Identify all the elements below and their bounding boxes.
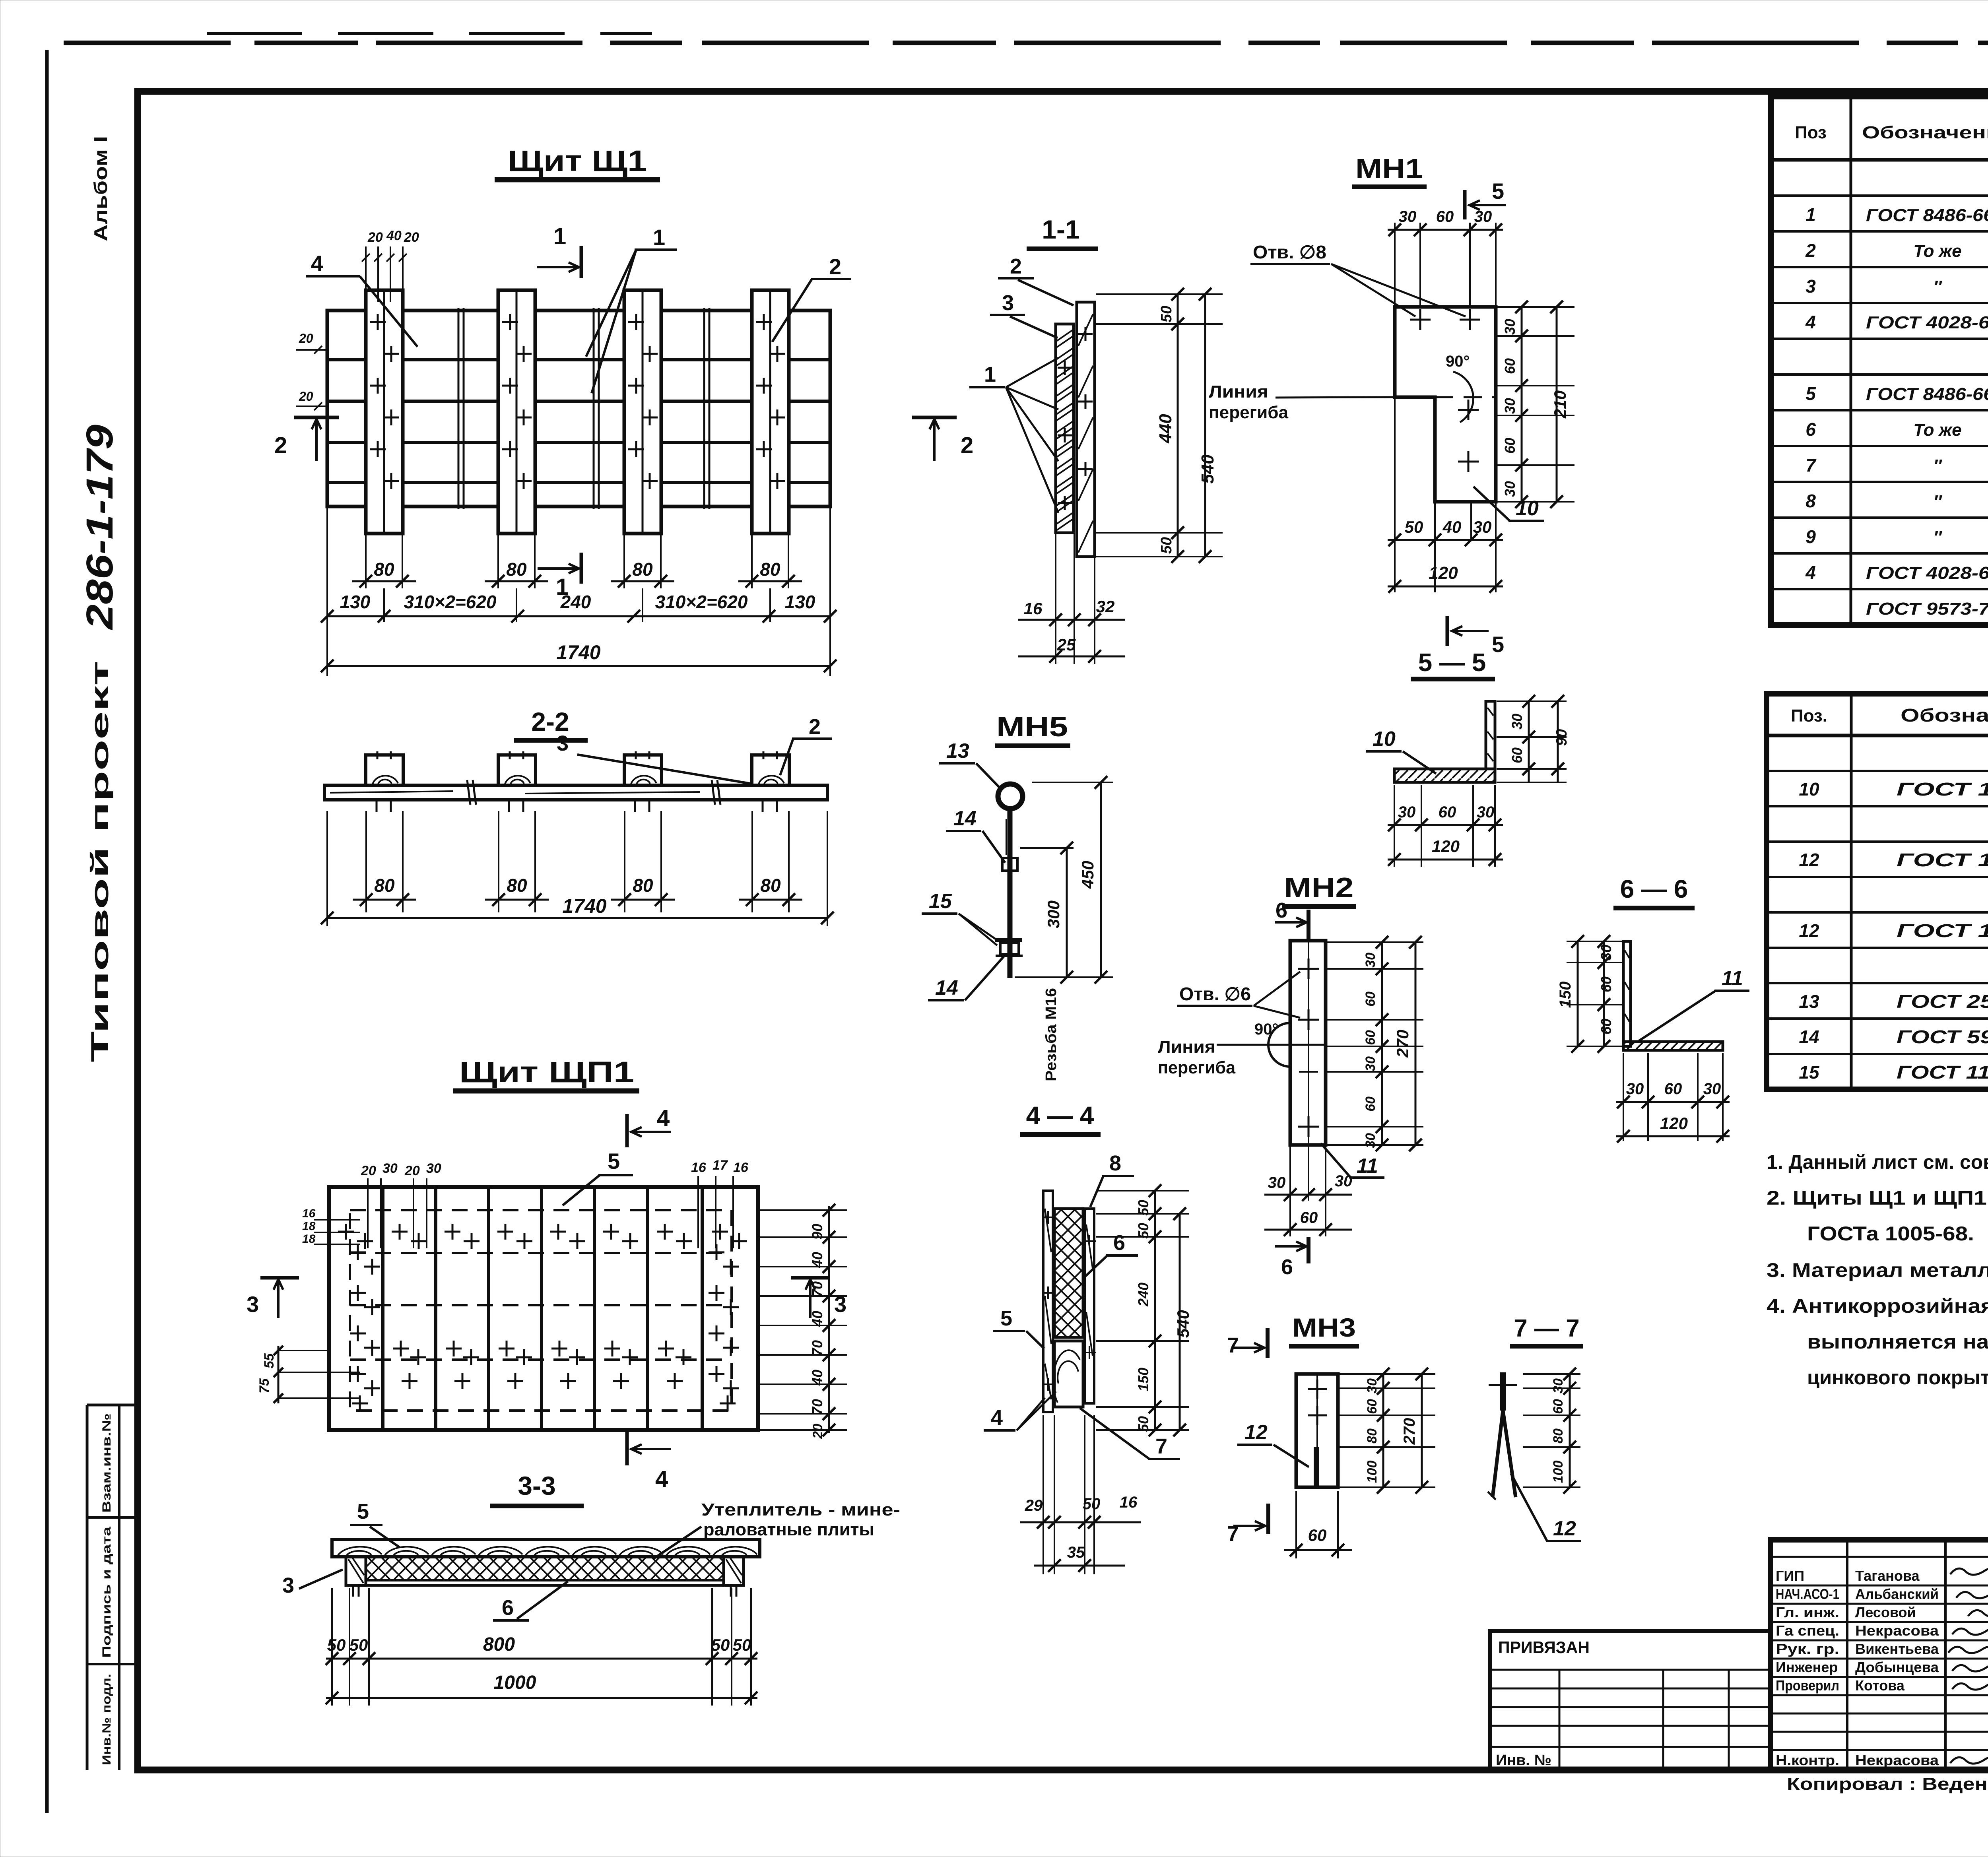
svg-text:12: 12 bbox=[1799, 850, 1819, 870]
svg-text:Альбанский: Альбанский bbox=[1855, 1586, 1939, 1602]
title block signature grid bbox=[1771, 1556, 1988, 1558]
svg-text:100: 100 bbox=[1365, 1461, 1380, 1483]
svg-text:60: 60 bbox=[1365, 1399, 1380, 1414]
sheet outer border left edge bbox=[45, 50, 49, 1813]
svg-text:300: 300 bbox=[1044, 900, 1063, 928]
svg-text:50: 50 bbox=[1158, 306, 1175, 322]
svg-text:16: 16 bbox=[302, 1207, 316, 1220]
svg-text:30: 30 bbox=[1363, 1133, 1378, 1148]
svg-text:4. Антикоррозийная защита с: 4. Антикоррозийная защита соединительных… bbox=[1767, 1295, 1988, 1317]
svg-text:1: 1 bbox=[1806, 204, 1816, 225]
right dims 1-1 bbox=[1096, 293, 1223, 295]
svg-text:12: 12 bbox=[1244, 1421, 1268, 1444]
svg-text:1740: 1740 bbox=[562, 895, 606, 917]
right dims МН1 inner chain bbox=[1497, 306, 1574, 308]
section 5-5 horizontal plate bbox=[1394, 769, 1495, 782]
svg-text:17: 17 bbox=[712, 1158, 728, 1173]
svg-text:1: 1 bbox=[653, 225, 665, 250]
svg-text:Отв. ∅8: Отв. ∅8 bbox=[1253, 242, 1326, 262]
section 2-2 board bbox=[324, 785, 827, 800]
svg-text:16: 16 bbox=[1024, 599, 1043, 618]
svg-text:Поз.: Поз. bbox=[1791, 706, 1827, 726]
svg-text:120: 120 bbox=[1660, 1114, 1688, 1133]
svg-text:30: 30 bbox=[1399, 208, 1417, 225]
svg-text:120: 120 bbox=[1432, 837, 1460, 856]
svg-text:40: 40 bbox=[386, 228, 402, 243]
svg-text:60: 60 bbox=[1363, 1030, 1378, 1045]
section 3-3 insulation hatched bbox=[366, 1557, 724, 1580]
svg-text:3: 3 bbox=[1806, 276, 1816, 297]
svg-text:4: 4 bbox=[311, 251, 323, 276]
svg-text:18: 18 bbox=[302, 1232, 316, 1246]
svg-text:2. Щиты Щ1 и ЩП1 выполнят: 2. Щиты Щ1 и ЩП1 выполнять согласно техн… bbox=[1767, 1187, 1988, 1209]
section 7-7 fork legs bbox=[1493, 1411, 1503, 1497]
svg-text:″: ″ bbox=[1933, 492, 1942, 511]
plate МН3 centerline bbox=[1316, 1374, 1318, 1447]
slot МН3 bbox=[1314, 1447, 1319, 1486]
svg-text:540: 540 bbox=[1174, 1310, 1192, 1338]
svg-text:80: 80 bbox=[506, 559, 527, 580]
panel ЩП1 outline bbox=[329, 1187, 758, 1430]
svg-text:4: 4 bbox=[1805, 562, 1816, 583]
svg-text:Отв. ∅6: Отв. ∅6 bbox=[1179, 984, 1251, 1004]
svg-text:80: 80 bbox=[760, 875, 781, 896]
section mark 1 bottom bbox=[580, 553, 583, 584]
svg-text:ГИП: ГИП bbox=[1776, 1568, 1804, 1584]
svg-text:2: 2 bbox=[1805, 240, 1816, 261]
svg-text:16: 16 bbox=[691, 1160, 707, 1175]
svg-text:Лесовой: Лесовой bbox=[1855, 1604, 1916, 1620]
svg-text:″: ″ bbox=[1933, 528, 1942, 547]
svg-text:2: 2 bbox=[809, 715, 821, 739]
svg-text:МН1: МН1 bbox=[1355, 153, 1423, 184]
svg-text:30: 30 bbox=[1626, 1080, 1644, 1098]
svg-text:2: 2 bbox=[961, 433, 973, 458]
svg-text:13: 13 bbox=[1799, 991, 1819, 1012]
section 5-5 vertical leg bbox=[1486, 701, 1495, 769]
svg-text:60: 60 bbox=[1664, 1080, 1682, 1098]
svg-text:6: 6 bbox=[1806, 419, 1816, 440]
svg-text:11: 11 bbox=[1357, 1155, 1378, 1178]
svg-text:16: 16 bbox=[1120, 1494, 1138, 1511]
section 4-4 lower wood block bbox=[1054, 1341, 1083, 1407]
svg-text:ГОСТ 4028-63*: ГОСТ 4028-63* bbox=[1866, 313, 1988, 332]
svg-text:12: 12 bbox=[1799, 920, 1819, 941]
section mark 4 top bbox=[625, 1114, 629, 1147]
privyazan block columns bbox=[1559, 1670, 1561, 1770]
section 3-3 bottom board line bbox=[346, 1584, 744, 1587]
svg-text:60: 60 bbox=[1598, 976, 1614, 992]
svg-text:2: 2 bbox=[1010, 254, 1022, 278]
svg-text:Типовой проект: Типовой проект bbox=[86, 661, 114, 1062]
svg-text:90°: 90° bbox=[1446, 353, 1470, 370]
svg-text:30: 30 bbox=[426, 1161, 441, 1176]
svg-text:30: 30 bbox=[1474, 208, 1492, 225]
panel Щ1 board joint lines bbox=[458, 308, 460, 509]
svg-text:1: 1 bbox=[984, 363, 996, 386]
right dim chain ЩП1 bbox=[758, 1209, 847, 1211]
panel ЩП1 dashed inset frame bbox=[350, 1210, 732, 1411]
svg-text:Обозначение: Обозначение bbox=[1862, 123, 1988, 142]
left margin stamp boxes bbox=[86, 1405, 89, 1770]
svg-text:25: 25 bbox=[1057, 635, 1076, 654]
svg-text:20: 20 bbox=[299, 389, 313, 404]
МН5 ring bbox=[998, 784, 1023, 809]
svg-text:310×2=620: 310×2=620 bbox=[404, 592, 497, 612]
svg-text:8: 8 bbox=[1109, 1151, 1121, 1175]
svg-text:50: 50 bbox=[1135, 1223, 1151, 1239]
svg-text:10: 10 bbox=[1799, 779, 1819, 799]
panel ЩП1 board lines bbox=[381, 1187, 384, 1430]
svg-text:Линия: Линия bbox=[1158, 1037, 1215, 1057]
svg-text:55: 55 bbox=[262, 1353, 277, 1368]
svg-text:20: 20 bbox=[810, 1424, 825, 1439]
section 1-1 nails bbox=[1078, 333, 1093, 335]
svg-text:ГОСТа 1005-68.: ГОСТа 1005-68. bbox=[1807, 1222, 1974, 1245]
svg-text:Рук. гр.: Рук. гр. bbox=[1776, 1641, 1839, 1657]
panel Щ1 board lines bbox=[327, 358, 830, 361]
svg-text:30: 30 bbox=[1509, 714, 1525, 730]
svg-text:90: 90 bbox=[1553, 729, 1570, 746]
dims 50 50 800 50 50 under 3-3 bbox=[331, 1588, 333, 1706]
svg-text:6: 6 bbox=[502, 1596, 514, 1620]
svg-text:12: 12 bbox=[1553, 1517, 1576, 1540]
svg-text:60: 60 bbox=[1502, 358, 1518, 374]
svg-text:60: 60 bbox=[1598, 1019, 1614, 1034]
section mark 6 bottom МН2 bbox=[1307, 1237, 1310, 1263]
title block signature squiggles bbox=[1950, 1568, 1988, 1575]
svg-text:4: 4 bbox=[657, 1105, 670, 1131]
svg-text:240: 240 bbox=[560, 592, 591, 612]
angle 6-6 horizontal leg bbox=[1623, 1042, 1723, 1050]
svg-text:20: 20 bbox=[404, 230, 419, 245]
90 degree arc МН1 bbox=[1453, 372, 1474, 422]
svg-text:7: 7 bbox=[1155, 1434, 1167, 1458]
svg-text:10: 10 bbox=[1516, 497, 1539, 520]
right dims 4-4 outer 540 bbox=[1179, 1214, 1181, 1430]
svg-text:9: 9 bbox=[1806, 526, 1816, 547]
svg-text:120: 120 bbox=[1429, 563, 1458, 583]
svg-text:10: 10 bbox=[1373, 728, 1396, 751]
bottom dims 50 40 30 МН1 bbox=[1394, 397, 1396, 592]
svg-text:перегиба: перегиба bbox=[1209, 403, 1289, 422]
90 degree arc МН2 bbox=[1268, 1023, 1290, 1067]
bottom dims 29 50 16 / 35 4-4 bbox=[1043, 1415, 1044, 1574]
svg-text:30: 30 bbox=[1473, 518, 1492, 536]
bottom dim 60 МН3 bbox=[1295, 1491, 1297, 1558]
svg-text:ГОСТ 8486-66**: ГОСТ 8486-66** bbox=[1866, 384, 1988, 404]
svg-text:80: 80 bbox=[633, 875, 653, 896]
svg-text:40: 40 bbox=[1442, 518, 1462, 536]
svg-text:30: 30 bbox=[1365, 1378, 1380, 1393]
top dims 30 60 30 МН1 bbox=[1394, 223, 1396, 306]
plate МН3 bbox=[1296, 1374, 1338, 1487]
svg-text:20: 20 bbox=[367, 230, 383, 245]
svg-text:50: 50 bbox=[1135, 1416, 1151, 1432]
svg-text:Утеплитель - мине-: Утеплитель - мине- bbox=[701, 1500, 900, 1519]
svg-text:6: 6 bbox=[1113, 1231, 1125, 1255]
svg-text:50: 50 bbox=[1158, 537, 1175, 554]
section mark 5 top МН1 bbox=[1463, 190, 1467, 219]
svg-text:5: 5 bbox=[1000, 1306, 1012, 1330]
svg-text:130: 130 bbox=[785, 592, 815, 612]
svg-text:5: 5 bbox=[357, 1500, 369, 1523]
svg-text:3: 3 bbox=[247, 1292, 259, 1317]
right dims 7-7 bbox=[1523, 1373, 1580, 1375]
bottom dims 30 60 30 / 120 5-5 bbox=[1394, 785, 1395, 867]
svg-text:4: 4 bbox=[655, 1466, 668, 1492]
svg-text:7: 7 bbox=[1227, 1333, 1239, 1357]
МН5 upper nut bbox=[1002, 858, 1017, 871]
svg-text:НАЧ.АСО-1: НАЧ.АСО-1 bbox=[1776, 1586, 1839, 1602]
privyazan block outline bbox=[1490, 1631, 1771, 1770]
svg-text:1740: 1740 bbox=[556, 641, 600, 664]
section 1-1 left strip hatched bbox=[1056, 324, 1074, 533]
svg-text:30: 30 bbox=[1398, 803, 1416, 821]
svg-text:Обозначение: Обозначение bbox=[1901, 705, 1988, 726]
svg-text:286-1-179: 286-1-179 bbox=[79, 425, 121, 631]
svg-text:Взам.инв.№: Взам.инв.№ bbox=[100, 1413, 113, 1513]
svg-text:Некрасова: Некрасова bbox=[1855, 1622, 1939, 1639]
svg-text:ГОСТ 5915-70*: ГОСТ 5915-70* bbox=[1897, 1026, 1988, 1047]
svg-text:32: 32 bbox=[1096, 597, 1115, 616]
section 3-3 top board bbox=[332, 1539, 760, 1557]
svg-text:5: 5 bbox=[608, 1149, 620, 1174]
svg-text:4: 4 bbox=[991, 1406, 1003, 1430]
section mark 2 right bbox=[912, 416, 957, 419]
bottom dims 1-1 bbox=[1055, 533, 1056, 664]
svg-text:МН2: МН2 bbox=[1284, 872, 1354, 903]
panel ЩП1 dashed batten lines bbox=[350, 1252, 732, 1254]
panel Щ1 battens bbox=[366, 290, 403, 534]
svg-text:30: 30 bbox=[1363, 1056, 1378, 1071]
section 4-4 right board bbox=[1085, 1209, 1094, 1403]
svg-text:15: 15 bbox=[1799, 1062, 1820, 1083]
svg-text:13: 13 bbox=[946, 739, 969, 763]
svg-text:ПРИВЯЗАН: ПРИВЯЗАН bbox=[1498, 1638, 1590, 1657]
svg-text:То же: То же bbox=[1913, 420, 1961, 440]
svg-text:75: 75 bbox=[257, 1378, 272, 1393]
svg-text:Котова: Котова bbox=[1855, 1677, 1905, 1694]
svg-text:Щит ЩП1: Щит ЩП1 bbox=[459, 1056, 634, 1089]
svg-text:Добынцева: Добынцева bbox=[1855, 1659, 1939, 1675]
svg-text:МН5: МН5 bbox=[996, 711, 1068, 742]
svg-text:800: 800 bbox=[483, 1634, 515, 1655]
section 2-2 board break marks bbox=[467, 780, 470, 805]
left dims 6-6 inner chain bbox=[1567, 941, 1622, 942]
title block outline bbox=[1771, 1540, 1988, 1770]
svg-text:3-3: 3-3 bbox=[518, 1471, 555, 1500]
svg-text:Проверил: Проверил bbox=[1776, 1677, 1839, 1694]
svg-text:14: 14 bbox=[1799, 1026, 1819, 1047]
section mark 5 bottom МН1 bbox=[1446, 616, 1449, 646]
МН5 rod bbox=[1008, 809, 1013, 978]
svg-text:40: 40 bbox=[809, 1311, 825, 1327]
plate МН1 outline bbox=[1395, 307, 1496, 502]
svg-text:2: 2 bbox=[829, 254, 841, 279]
svg-text:То же: То же bbox=[1913, 241, 1961, 261]
svg-text:20: 20 bbox=[299, 331, 313, 345]
svg-text:6 — 6: 6 — 6 bbox=[1620, 875, 1688, 903]
svg-text:ГОСТ 2590-71*: ГОСТ 2590-71* bbox=[1897, 991, 1988, 1012]
svg-text:Некрасова: Некрасова bbox=[1855, 1752, 1939, 1768]
svg-text:30: 30 bbox=[382, 1161, 398, 1176]
svg-text:80: 80 bbox=[374, 875, 395, 896]
svg-text:1000: 1000 bbox=[494, 1672, 536, 1693]
svg-text:Га спец.: Га спец. bbox=[1776, 1622, 1839, 1639]
panel Щ1 boards outline bbox=[327, 310, 830, 506]
svg-text:20: 20 bbox=[361, 1163, 376, 1178]
section 3-3 nails bbox=[352, 1585, 354, 1597]
svg-text:3: 3 bbox=[1002, 291, 1014, 315]
svg-text:80: 80 bbox=[507, 875, 527, 896]
svg-text:30: 30 bbox=[1551, 1378, 1566, 1393]
svg-text:60: 60 bbox=[1509, 747, 1525, 763]
svg-text:ГОСТ 11371-78: ГОСТ 11371-78 bbox=[1897, 1062, 1988, 1083]
svg-text:30: 30 bbox=[1703, 1080, 1721, 1098]
МН5 dims 450 300 bbox=[1032, 782, 1113, 783]
svg-text:30: 30 bbox=[1502, 319, 1518, 335]
plate МН2 bbox=[1290, 941, 1326, 1145]
section 4-4 insulation hatched bbox=[1054, 1209, 1083, 1337]
panel ЩП1 nail marks bbox=[338, 1231, 354, 1233]
svg-text:ГОСТ 103-76: ГОСТ 103-76 bbox=[1897, 850, 1988, 870]
svg-text:50: 50 bbox=[1135, 1200, 1151, 1216]
svg-text:80: 80 bbox=[632, 559, 653, 580]
svg-text:3: 3 bbox=[557, 732, 569, 755]
svg-text:1-1: 1-1 bbox=[1042, 215, 1079, 244]
svg-text:ГОСТ 103-76: ГОСТ 103-76 bbox=[1897, 920, 1988, 941]
svg-text:30: 30 bbox=[1477, 803, 1495, 821]
svg-text:Таганова: Таганова bbox=[1855, 1568, 1920, 1584]
svg-text:11: 11 bbox=[1722, 967, 1743, 990]
svg-text:3: 3 bbox=[282, 1574, 294, 1597]
svg-text:270: 270 bbox=[1401, 1418, 1418, 1445]
svg-text:14: 14 bbox=[935, 976, 958, 999]
svg-text:70: 70 bbox=[809, 1281, 825, 1297]
svg-text:цинкового покрытия толщиной: цинкового покрытия толщиной 150мкм. bbox=[1807, 1366, 1988, 1389]
svg-text:Линия: Линия bbox=[1209, 382, 1268, 402]
svg-text:90°: 90° bbox=[1254, 1021, 1279, 1038]
section 4-4 nails bbox=[1042, 1217, 1054, 1218]
dim 1740 under 2-2 bbox=[326, 811, 328, 926]
svg-text:30: 30 bbox=[1268, 1174, 1286, 1191]
svg-text:ГОСТ 103-76: ГОСТ 103-76 bbox=[1897, 779, 1988, 799]
right dims МН2 inner chain bbox=[1327, 941, 1423, 943]
section 2-2 battens end grain bbox=[366, 755, 403, 785]
svg-text:80: 80 bbox=[1365, 1428, 1380, 1444]
svg-text:60: 60 bbox=[1436, 208, 1454, 225]
svg-text:8: 8 bbox=[1806, 491, 1816, 511]
svg-text:40: 40 bbox=[809, 1252, 825, 1268]
svg-text:130: 130 bbox=[340, 592, 371, 612]
section 1-1 right strip bbox=[1077, 302, 1095, 557]
svg-text:5 — 5: 5 — 5 bbox=[1418, 648, 1486, 677]
svg-text:50: 50 bbox=[711, 1636, 730, 1654]
svg-text:150: 150 bbox=[1135, 1368, 1151, 1391]
svg-text:540: 540 bbox=[1198, 454, 1217, 484]
svg-text:440: 440 bbox=[1156, 414, 1175, 444]
svg-text:30: 30 bbox=[1502, 481, 1518, 497]
svg-text:1. Данный лист см. совместн: 1. Данный лист см. совместно с АС-12 ÷ А… bbox=[1767, 1151, 1988, 1173]
bottom dims 6-6 bbox=[1623, 1053, 1624, 1141]
dim row 130 / 310x2=620 / 240 / 310x2=620 / 130 bbox=[326, 506, 328, 676]
svg-text:ГОСТ 9573-72*: ГОСТ 9573-72* bbox=[1866, 599, 1988, 619]
dim 1000 under 3-3 bbox=[326, 1697, 757, 1699]
svg-text:100: 100 bbox=[1551, 1461, 1566, 1483]
dims 80 under 2-2 bbox=[365, 811, 367, 912]
svg-text:″: ″ bbox=[1933, 277, 1942, 297]
svg-text:60: 60 bbox=[1300, 1209, 1318, 1226]
svg-text:ГОСТ 8486-66**: ГОСТ 8486-66** bbox=[1866, 206, 1988, 225]
left dims 6-6 outer 150 bbox=[1577, 941, 1579, 1046]
section mark 3 right bbox=[791, 1276, 830, 1280]
svg-text:раловатные плиты: раловатные плиты bbox=[703, 1520, 874, 1539]
svg-text:60: 60 bbox=[1363, 992, 1378, 1007]
svg-text:МН3: МН3 bbox=[1292, 1313, 1356, 1342]
svg-text:150: 150 bbox=[1557, 982, 1574, 1008]
svg-text:60: 60 bbox=[1363, 1096, 1378, 1112]
plate МН2 centerline bbox=[1308, 941, 1309, 1145]
svg-text:3. Материал металлоконструкц: 3. Материал металлоконструкций - сталь В… bbox=[1767, 1259, 1988, 1281]
svg-text:7: 7 bbox=[1806, 455, 1817, 475]
svg-text:50: 50 bbox=[1405, 518, 1423, 536]
svg-text:Инв. №: Инв. № bbox=[1496, 1752, 1551, 1769]
svg-text:20: 20 bbox=[404, 1163, 420, 1178]
dim row 80 under battens bbox=[365, 534, 367, 588]
svg-text:80: 80 bbox=[1551, 1428, 1566, 1444]
right dims МН3 inner chain bbox=[1339, 1373, 1435, 1375]
svg-text:Инв.№ подл.: Инв.№ подл. bbox=[100, 1674, 113, 1765]
svg-text:30: 30 bbox=[1598, 945, 1614, 961]
right dims МН1 outer 210 bbox=[1556, 307, 1558, 502]
svg-text:60: 60 bbox=[1439, 803, 1456, 821]
section 3-3 left end block bbox=[346, 1557, 366, 1585]
right dims МН2 outer 270 bbox=[1415, 942, 1417, 1145]
holes МН3 bbox=[1308, 1388, 1327, 1390]
svg-text:60: 60 bbox=[1551, 1399, 1566, 1414]
svg-text:30: 30 bbox=[1363, 953, 1378, 968]
svg-text:35: 35 bbox=[1067, 1544, 1085, 1561]
dim 120 МН1 bbox=[1388, 586, 1503, 588]
svg-text:Копировал : Веденина: Копировал : Веденина bbox=[1787, 1774, 1988, 1794]
svg-text:Инженер: Инженер bbox=[1776, 1659, 1838, 1675]
svg-text:Щит Щ1: Щит Щ1 bbox=[508, 144, 647, 177]
svg-text:4: 4 bbox=[1805, 312, 1816, 332]
svg-text:5: 5 bbox=[1492, 632, 1504, 657]
section 3-3 right end block bbox=[724, 1557, 744, 1585]
svg-text:выполняется на заводе путем: выполняется на заводе путем нанесения ме… bbox=[1807, 1331, 1988, 1353]
fold line МН1 dashed bbox=[1435, 396, 1496, 398]
МН5 lower washer and nut bbox=[995, 938, 1022, 942]
holes МН2 bbox=[1298, 968, 1319, 970]
svg-text:7 — 7: 7 — 7 bbox=[1514, 1315, 1579, 1342]
svg-text:Резьба М16: Резьба М16 bbox=[1043, 988, 1060, 1081]
svg-text:80: 80 bbox=[760, 559, 780, 580]
svg-text:ГОСТ 4028-63*: ГОСТ 4028-63* bbox=[1866, 563, 1988, 583]
section mark 4 bottom bbox=[625, 1432, 629, 1465]
svg-text:50: 50 bbox=[327, 1636, 346, 1654]
svg-text:310×2=620: 310×2=620 bbox=[655, 592, 748, 612]
svg-text:″: ″ bbox=[1933, 456, 1942, 475]
svg-text:1: 1 bbox=[553, 223, 566, 249]
svg-text:Викентьева: Викентьева bbox=[1855, 1641, 1939, 1657]
right dims 5-5 bbox=[1497, 700, 1567, 702]
svg-text:50: 50 bbox=[733, 1636, 751, 1654]
privyazan block rows bbox=[1490, 1669, 1771, 1671]
section mark 1 top bbox=[580, 246, 583, 278]
svg-text:40: 40 bbox=[809, 1370, 825, 1386]
